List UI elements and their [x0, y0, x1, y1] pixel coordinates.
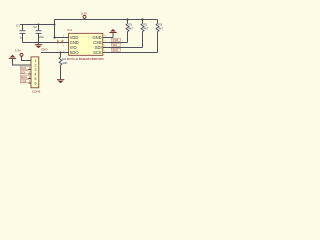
svg-text:2: 2 [63, 40, 64, 42]
svg-text:C2: C2 [33, 25, 37, 29]
svg-text:SDO: SDO [41, 47, 48, 51]
svg-text:GND: GND [70, 40, 79, 45]
svg-text:5: 5 [35, 77, 37, 81]
svg-text:VIO: VIO [70, 45, 77, 50]
svg-text:8: 8 [105, 35, 106, 37]
svg-text:IC1: IC1 [68, 28, 73, 32]
svg-text:1: 1 [35, 59, 37, 63]
svg-text:5: 5 [105, 50, 106, 52]
svg-text:SDO: SDO [70, 50, 79, 55]
svg-text:SDI: SDI [95, 45, 102, 50]
svg-text:CON6: CON6 [32, 90, 41, 94]
svg-text:4: 4 [63, 50, 64, 52]
svg-text:3.3V: 3.3V [15, 49, 21, 53]
svg-text:1: 1 [63, 35, 64, 37]
svg-text:3.3V: 3.3V [81, 11, 87, 15]
svg-text:7: 7 [105, 40, 106, 42]
svg-text:VDD: VDD [70, 35, 79, 40]
svg-text:GND: GND [92, 35, 101, 40]
svg-text:3: 3 [63, 45, 64, 47]
svg-text:3: 3 [35, 68, 37, 72]
svg-text:SCK: SCK [93, 50, 102, 55]
svg-text:C1: C1 [16, 23, 20, 27]
svg-text:6: 6 [105, 45, 106, 47]
svg-text:2: 2 [35, 63, 37, 67]
svg-text:6: 6 [35, 81, 37, 85]
svg-text:4: 4 [35, 72, 37, 76]
svg-text:CSB: CSB [93, 40, 102, 45]
svg-text:BOSCH BME280/BMP280: BOSCH BME280/BMP280 [67, 57, 104, 61]
